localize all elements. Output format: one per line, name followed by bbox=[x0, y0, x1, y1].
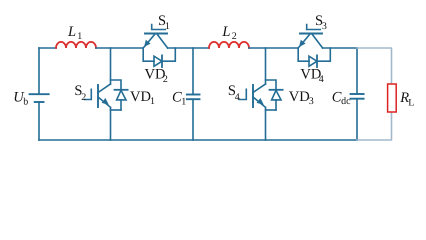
wire top rail segment D (L2 to S3 left foot) bbox=[249, 47, 298, 49]
svg-text:1: 1 bbox=[77, 31, 82, 42]
wire VD3 top stub bbox=[266, 80, 277, 90]
svg-text:VD: VD bbox=[130, 89, 151, 105]
svg-text:2: 2 bbox=[81, 92, 86, 103]
inductor L2 bbox=[209, 42, 249, 48]
wire RL branch (light) bbox=[357, 48, 392, 140]
transistor S3 (IGBT) bbox=[298, 25, 322, 49]
wire VD1 bottom stub bbox=[111, 109, 122, 111]
wire bottom rail (dark, left corner to Cdc junction) bbox=[39, 139, 357, 141]
svg-text:1: 1 bbox=[165, 21, 170, 32]
svg-text:1: 1 bbox=[150, 96, 155, 107]
svg-text:4: 4 bbox=[319, 74, 324, 85]
wire top rail segment A (left corner to L1) bbox=[39, 47, 56, 49]
diode VD2 with loop bbox=[143, 48, 175, 67]
diode VD1 bbox=[115, 90, 128, 110]
svg-text:2: 2 bbox=[163, 74, 168, 85]
wire VD1 top stub bbox=[111, 80, 122, 90]
wire S2 branch vertical lower bbox=[110, 108, 112, 141]
capacitor C1 bbox=[187, 48, 200, 140]
wire S4 branch vertical lower bbox=[265, 108, 267, 141]
wire left vertical lower (battery to bottom rail) bbox=[38, 102, 40, 140]
transistor S1 (IGBT) bbox=[143, 25, 167, 49]
svg-text:dc: dc bbox=[341, 96, 351, 107]
transistor S2 (IGBT) bbox=[85, 84, 111, 107]
svg-text:3: 3 bbox=[309, 96, 314, 107]
wire top rail segment E (S3 right foot to Cdc junction) bbox=[323, 47, 357, 49]
svg-text:VD: VD bbox=[289, 89, 310, 105]
svg-text:1: 1 bbox=[181, 97, 186, 108]
battery Ub bbox=[30, 94, 49, 102]
wire VD3 bottom stub bbox=[266, 109, 277, 111]
svg-text:L: L bbox=[221, 24, 230, 40]
wire top rail segment C (S1 right foot to L2) bbox=[168, 47, 209, 49]
capacitor Cdc bbox=[351, 48, 364, 140]
wire S4 branch vertical upper bbox=[265, 48, 267, 84]
diode VD4 with loop bbox=[298, 48, 330, 67]
diode VD3 bbox=[270, 90, 283, 110]
svg-text:4: 4 bbox=[235, 92, 240, 103]
wire S2 branch vertical upper bbox=[110, 48, 112, 84]
svg-text:b: b bbox=[23, 96, 28, 107]
resistor RL bbox=[388, 84, 397, 112]
wire top rail segment B (L1 to S1 left foot) bbox=[96, 47, 143, 49]
transistor S4 (IGBT) bbox=[240, 84, 266, 107]
svg-text:3: 3 bbox=[322, 21, 327, 32]
svg-text:L: L bbox=[408, 97, 414, 108]
inductor L1 bbox=[56, 42, 96, 48]
svg-text:L: L bbox=[67, 24, 76, 40]
wire left vertical upper (corner to battery) bbox=[38, 48, 40, 94]
svg-text:2: 2 bbox=[232, 31, 237, 42]
